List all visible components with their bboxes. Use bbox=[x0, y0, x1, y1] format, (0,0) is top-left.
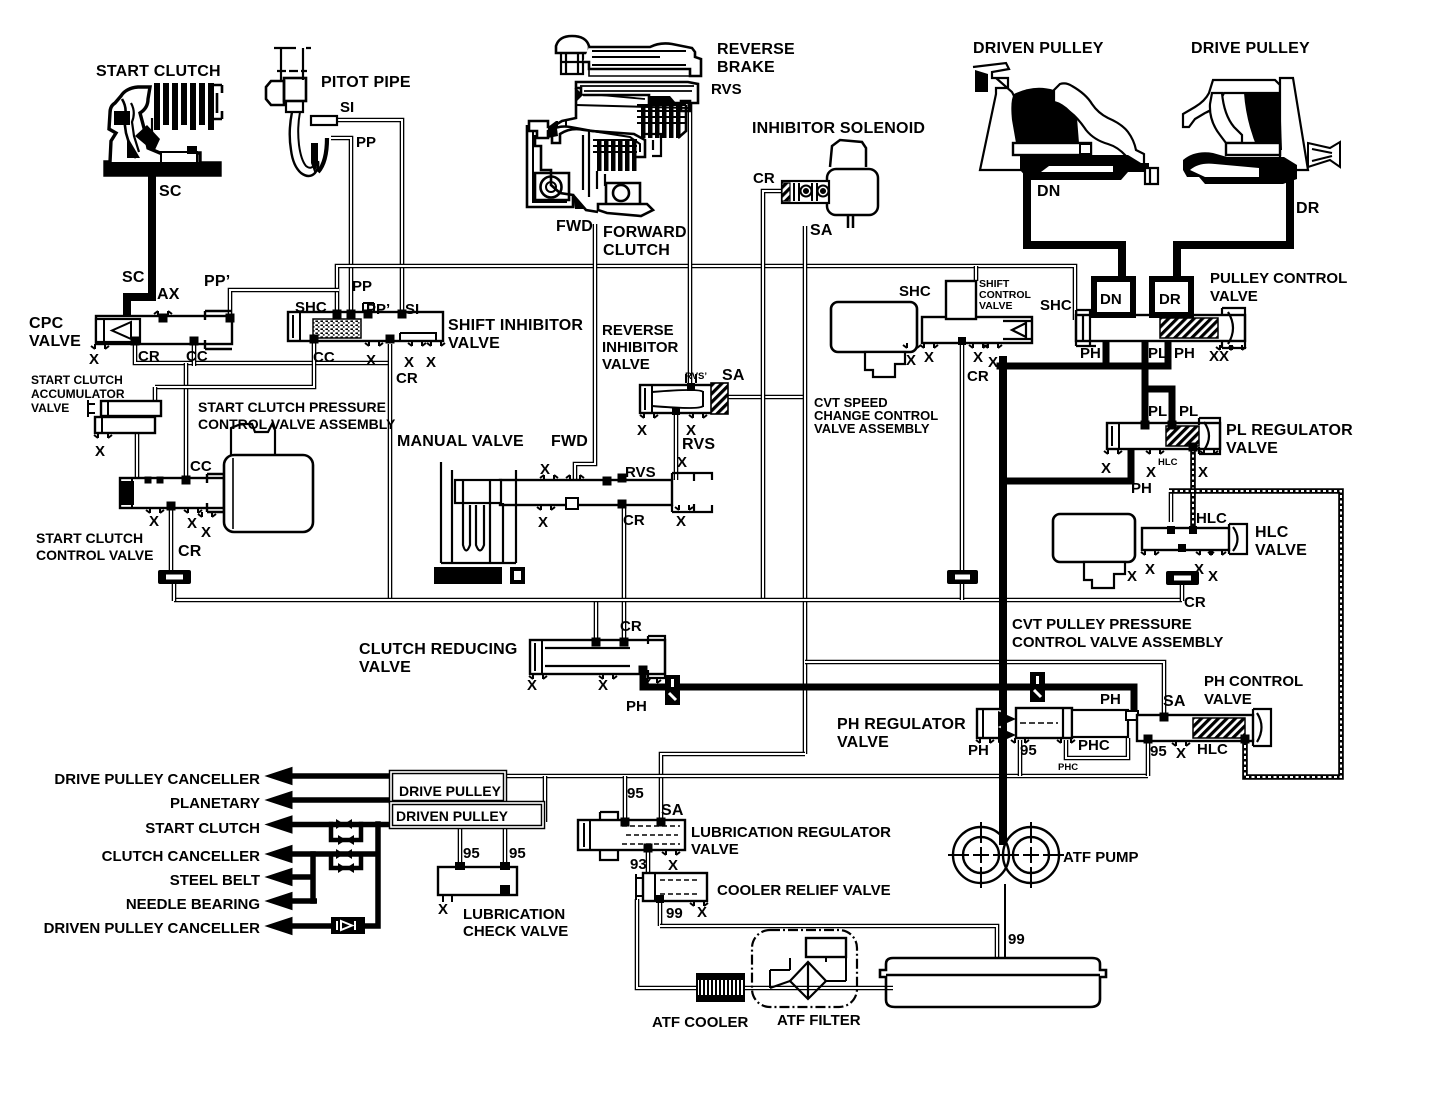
wire: cooler relief valve to ATF cooler bbox=[637, 899, 700, 988]
svg-text:AX: AX bbox=[157, 286, 180, 303]
svg-text:NEEDLE BEARING: NEEDLE BEARING bbox=[126, 896, 260, 913]
svg-text:DRIVE PULLEY: DRIVE PULLEY bbox=[399, 783, 502, 799]
svg-text:VALVE: VALVE bbox=[448, 335, 500, 352]
svg-text:99: 99 bbox=[666, 905, 683, 922]
svg-text:FWD: FWD bbox=[556, 218, 593, 235]
valve shift inhibitor (spool) bbox=[288, 312, 443, 341]
svg-text:X: X bbox=[438, 901, 448, 918]
wire SA: reverse inhibitor valve to SA riser bbox=[725, 395, 805, 400]
wire SA: to lubrication regulator valve bbox=[661, 754, 805, 821]
valve start clutch control (spool) bbox=[120, 478, 224, 508]
filter on CR line left bbox=[158, 570, 191, 584]
svg-text:VALVE: VALVE bbox=[1210, 288, 1258, 305]
svg-text:REVERSE: REVERSE bbox=[717, 41, 795, 58]
svg-text:SHC: SHC bbox=[1040, 297, 1072, 314]
svg-text:START CLUTCH PRESSURE: START CLUTCH PRESSURE bbox=[198, 399, 386, 415]
valve PH control (spool) bbox=[1137, 715, 1253, 741]
svg-text:SC: SC bbox=[122, 269, 145, 286]
wire: ATF cooler through filter to oil pan bbox=[742, 986, 893, 991]
svg-text:ATF COOLER: ATF COOLER bbox=[652, 1014, 749, 1031]
svg-text:95: 95 bbox=[1150, 743, 1167, 760]
svg-text:DRIVEN PULLEY: DRIVEN PULLEY bbox=[973, 40, 1104, 57]
svg-text:X: X bbox=[538, 514, 548, 531]
wire 95a to lubrication check valve bbox=[458, 826, 463, 867]
svg-text:DRIVEN PULLEY: DRIVEN PULLEY bbox=[396, 808, 509, 824]
svg-text:HLC: HLC bbox=[1197, 741, 1228, 758]
svg-text:CLUTCH REDUCING: CLUTCH REDUCING bbox=[359, 641, 518, 658]
wire CR: start clutch control valve to filter bbox=[169, 507, 174, 571]
wire CC: accumulator to shift inhibitor CC port bbox=[155, 340, 314, 387]
svg-text:SA: SA bbox=[810, 222, 833, 239]
svg-text:CONTROL VALVE ASSEMBLY: CONTROL VALVE ASSEMBLY bbox=[198, 416, 396, 432]
wire 95b to lubrication check valve bbox=[503, 826, 508, 867]
wire SHC bus: shift inhibitor to pulley control valve bbox=[337, 266, 1075, 320]
svg-text:DRIVEN PULLEY CANCELLER: DRIVEN PULLEY CANCELLER bbox=[44, 920, 261, 937]
check valve pair on start clutch line bbox=[331, 824, 361, 840]
svg-text:X: X bbox=[598, 677, 608, 694]
svg-text:START CLUTCH: START CLUTCH bbox=[36, 530, 143, 546]
arrow to steel belt bbox=[266, 869, 292, 886]
svg-text:CHECK VALVE: CHECK VALVE bbox=[463, 923, 568, 940]
svg-text:VALVE ASSEMBLY: VALVE ASSEMBLY bbox=[814, 421, 930, 436]
svg-text:95: 95 bbox=[509, 845, 526, 862]
svg-text:CR: CR bbox=[1184, 594, 1206, 611]
manual valve position labels bbox=[434, 567, 502, 584]
svg-text:X: X bbox=[677, 454, 687, 471]
svg-text:DR: DR bbox=[1296, 200, 1320, 217]
wire CC: down to start clutch control valve bbox=[184, 363, 189, 481]
svg-text:X: X bbox=[1146, 464, 1156, 481]
svg-text:CONTROL VALVE ASSEMBLY: CONTROL VALVE ASSEMBLY bbox=[1012, 634, 1223, 651]
svg-text:HLC: HLC bbox=[1196, 510, 1227, 527]
svg-text:PLANETARY: PLANETARY bbox=[170, 795, 260, 812]
svg-text:SI: SI bbox=[340, 99, 354, 116]
orifice on PH line 1 bbox=[665, 675, 680, 705]
svg-text:LUBRICATION: LUBRICATION bbox=[463, 906, 565, 923]
svg-text:X: X bbox=[1176, 745, 1186, 762]
wire CR bus right riser to HLC orifice bbox=[1180, 584, 1185, 601]
wire accumulator top stub bbox=[153, 387, 158, 403]
svg-text:DR: DR bbox=[1159, 291, 1181, 308]
svg-text:X: X bbox=[149, 513, 159, 530]
svg-text:X: X bbox=[1194, 561, 1204, 578]
port AX stub bbox=[154, 311, 172, 316]
svg-text:VALVE: VALVE bbox=[1255, 542, 1307, 559]
wire SA: inhibitor solenoid down bbox=[803, 226, 808, 754]
svg-text:VALVE: VALVE bbox=[31, 401, 69, 415]
svg-text:X: X bbox=[676, 513, 686, 530]
component pitot pipe drawing bbox=[266, 48, 337, 176]
svg-text:VALVE: VALVE bbox=[602, 356, 650, 373]
svg-text:PH: PH bbox=[626, 698, 647, 715]
box DN bbox=[1094, 279, 1133, 315]
svg-text:DRIVE PULLEY: DRIVE PULLEY bbox=[1191, 40, 1310, 57]
svg-text:CR: CR bbox=[753, 170, 775, 187]
svg-text:99: 99 bbox=[1008, 931, 1025, 948]
wire: clutch canceller to needle bearing link bbox=[310, 854, 316, 901]
solenoid CVT speed change control bbox=[831, 302, 917, 377]
svg-text:95: 95 bbox=[1020, 742, 1037, 759]
svg-text:PULLEY CONTROL: PULLEY CONTROL bbox=[1210, 270, 1347, 287]
svg-text:VALVE: VALVE bbox=[691, 841, 739, 858]
svg-text:SHC: SHC bbox=[899, 283, 931, 300]
wire accumulator to start clutch control valve bbox=[135, 431, 140, 481]
valve PL regulator (spool) bbox=[1107, 423, 1220, 449]
arrow to start clutch bbox=[266, 816, 292, 833]
wire PH: riser to PL regulator valve bbox=[1003, 450, 1131, 481]
svg-text:X: X bbox=[697, 904, 707, 921]
arrow to drive pulley canceller bbox=[266, 768, 292, 785]
svg-text:L S D N R: L S D N R bbox=[438, 572, 484, 583]
svg-text:RVS: RVS bbox=[711, 81, 742, 98]
wire CR bus left riser to filter bbox=[172, 583, 177, 601]
svg-text:PH REGULATOR: PH REGULATOR bbox=[837, 716, 966, 733]
wire SA: to PH control valve bbox=[805, 662, 1164, 713]
wire 99: to oil pan bbox=[660, 926, 997, 957]
orifice on PH line 2 bbox=[1030, 672, 1045, 702]
tag box DRIVE PULLEY bbox=[391, 772, 505, 802]
svg-text:X: X bbox=[527, 677, 537, 694]
svg-text:PP’: PP’ bbox=[204, 273, 230, 290]
arrow to planetary bbox=[266, 792, 292, 809]
svg-text:PP: PP bbox=[352, 278, 372, 295]
svg-text:BRAKE: BRAKE bbox=[717, 59, 775, 76]
svg-text:PH: PH bbox=[1174, 345, 1195, 362]
svg-text:SI: SI bbox=[405, 301, 419, 318]
svg-text:SHC: SHC bbox=[295, 299, 327, 316]
wire RVS: reverse inhibitor to manual valve bbox=[674, 411, 679, 480]
wire 99: pump suction to oil pan bbox=[1004, 884, 1006, 958]
svg-text:X: X bbox=[668, 857, 678, 874]
svg-text:SA: SA bbox=[661, 802, 684, 819]
svg-text:DN: DN bbox=[1037, 183, 1061, 200]
svg-text:REVERSE: REVERSE bbox=[602, 322, 674, 339]
component oil pan bbox=[880, 958, 1106, 1007]
component ATF pump bbox=[948, 822, 1064, 888]
svg-text:X: X bbox=[924, 349, 934, 366]
component ATF cooler bbox=[697, 974, 744, 1001]
svg-text:X: X bbox=[89, 351, 99, 368]
wire CR: inhibitor solenoid down to CR bus bbox=[763, 191, 782, 598]
svg-text:X: X bbox=[426, 354, 436, 371]
wire CR: shift control valve to orifice bbox=[960, 344, 965, 571]
svg-text:CR: CR bbox=[967, 368, 989, 385]
wire PP': CPC valve to SHC riser bbox=[230, 290, 339, 316]
svg-text:FWD: FWD bbox=[551, 433, 588, 450]
svg-text:ACCUMULATOR: ACCUMULATOR bbox=[31, 387, 125, 401]
svg-text:SC: SC bbox=[159, 183, 182, 200]
wire SC: start clutch to CPC valve bbox=[127, 168, 152, 316]
svg-text:X: X bbox=[973, 349, 983, 366]
svg-text:X: X bbox=[1208, 568, 1218, 585]
svg-text:CPC: CPC bbox=[29, 315, 64, 332]
wire 99 stub bbox=[658, 899, 663, 926]
wire HLC: PL regulator to HLC valve bbox=[1190, 449, 1196, 528]
tag box DRIVEN PULLEY bbox=[391, 803, 543, 827]
svg-text:PP’: PP’ bbox=[366, 301, 390, 318]
svg-text:START CLUTCH: START CLUTCH bbox=[145, 820, 260, 837]
svg-text:HLC: HLC bbox=[1158, 457, 1178, 468]
wire PP: pitot pipe to shift inhibitor valve bbox=[331, 138, 351, 313]
wire PH main riser to ATF pump bbox=[999, 360, 1007, 841]
wire CR: shift inhibitor valve down to CR bus bbox=[388, 344, 393, 600]
component start clutch drawing bbox=[105, 83, 222, 175]
svg-text:CC: CC bbox=[190, 458, 212, 475]
valve pulley control (spool) bbox=[1076, 315, 1245, 341]
component drive pulley drawing bbox=[1183, 78, 1340, 184]
wire CR bus bottom bbox=[174, 598, 1182, 603]
valve CPC (spool) bbox=[96, 316, 232, 344]
wire DN: driven pulley to pulley control valve bbox=[1027, 166, 1122, 281]
svg-text:SA: SA bbox=[722, 367, 745, 384]
wire: start clutch line down to canceller valve bbox=[363, 824, 378, 926]
svg-text:X: X bbox=[1101, 460, 1111, 477]
wire CC: CPC valve down stub bbox=[192, 342, 197, 366]
port PP' stub shift inhibitor bbox=[363, 303, 374, 312]
svg-text:INHIBITOR SOLENOID: INHIBITOR SOLENOID bbox=[752, 120, 925, 137]
svg-text:DN: DN bbox=[1100, 291, 1122, 308]
svg-text:INHIBITOR: INHIBITOR bbox=[602, 339, 679, 356]
svg-text:RVS: RVS bbox=[682, 436, 715, 453]
one-way valve driven pulley canceller bbox=[331, 917, 365, 934]
check valve pair on clutch canceller line bbox=[331, 854, 361, 868]
wire RVS: reverse brake to reverse inhibitor valve bbox=[688, 86, 693, 386]
filter on CR line (shift control) bbox=[947, 570, 978, 584]
wire FWD: forward clutch to manual valve bbox=[575, 224, 595, 481]
arrow to clutch canceller bbox=[266, 846, 292, 863]
valve manual (spool & detent) bbox=[500, 473, 712, 512]
arrow to needle bearing bbox=[266, 893, 292, 910]
svg-text:PL: PL bbox=[1148, 403, 1167, 420]
svg-text:X: X bbox=[95, 443, 105, 460]
component forward clutch & reverse brake drawing bbox=[527, 36, 701, 216]
solenoid start clutch pressure control bbox=[224, 424, 313, 532]
svg-text:X: X bbox=[187, 515, 197, 532]
svg-text:PH CONTROL: PH CONTROL bbox=[1204, 673, 1303, 690]
svg-text:93: 93 bbox=[630, 856, 647, 873]
svg-text:PH: PH bbox=[1131, 480, 1152, 497]
svg-text:RVS: RVS bbox=[625, 464, 656, 481]
svg-text:VALVE: VALVE bbox=[1226, 440, 1278, 457]
svg-text:CLUTCH CANCELLER: CLUTCH CANCELLER bbox=[102, 848, 260, 865]
svg-text:X: X bbox=[201, 524, 211, 541]
svg-text:CONTROL VALVE: CONTROL VALVE bbox=[36, 547, 153, 563]
svg-text:X: X bbox=[366, 352, 376, 369]
manual valve detent fork bbox=[441, 462, 516, 563]
svg-text:CC: CC bbox=[313, 349, 335, 366]
svg-text:DRIVE PULLEY CANCELLER: DRIVE PULLEY CANCELLER bbox=[54, 771, 260, 788]
svg-text:MANUAL VALVE: MANUAL VALVE bbox=[397, 433, 524, 450]
svg-text:95: 95 bbox=[463, 845, 480, 862]
svg-text:PH: PH bbox=[1080, 345, 1101, 362]
valve HLC (spool) bbox=[1142, 528, 1229, 550]
svg-text:PP: PP bbox=[356, 134, 376, 151]
svg-text:PHC: PHC bbox=[1058, 762, 1078, 773]
wire 95: PH regulator to bus bbox=[1018, 740, 1023, 776]
svg-text:VALVE: VALVE bbox=[837, 734, 889, 751]
svg-text:CR: CR bbox=[620, 618, 642, 635]
component ATF filter bbox=[752, 930, 857, 1007]
component inhibitor solenoid drawing bbox=[782, 140, 878, 228]
svg-text:PL REGULATOR: PL REGULATOR bbox=[1226, 422, 1353, 439]
wire 95: bus to lubrication regulator bbox=[623, 776, 628, 820]
wire 93: lubrication regulator to cooler relief valve bbox=[646, 849, 651, 874]
svg-text:VALVE: VALVE bbox=[979, 300, 1012, 312]
wire: CR bus to clutch reducing valve bbox=[594, 600, 599, 642]
wire PH port 1 stub bbox=[1103, 341, 1110, 366]
svg-text:ATF FILTER: ATF FILTER bbox=[777, 1012, 861, 1029]
svg-text:X: X bbox=[988, 354, 998, 371]
wire PHC loop under PH regulator bbox=[1066, 738, 1128, 758]
svg-text:PH: PH bbox=[1100, 691, 1121, 708]
valve clutch reducing (spool) bbox=[530, 640, 665, 674]
svg-text:LUBRICATION REGULATOR: LUBRICATION REGULATOR bbox=[691, 824, 891, 841]
valve reverse inhibitor (spool) bbox=[640, 385, 727, 413]
wire CR: orifice to CR bus bbox=[960, 583, 965, 600]
svg-text:COOLER RELIEF VALVE: COOLER RELIEF VALVE bbox=[717, 882, 891, 899]
svg-text:PHC: PHC bbox=[1078, 737, 1110, 754]
svg-text:CR: CR bbox=[178, 543, 202, 560]
svg-text:CC: CC bbox=[186, 348, 208, 365]
wire PH: clutch reducing valve to PH regulator bbox=[643, 672, 1134, 714]
wire CR: CPC valve across assembly box top bbox=[135, 342, 390, 363]
svg-text:X: X bbox=[1145, 561, 1155, 578]
wire 95: bus to driven pulley tag bbox=[543, 776, 548, 822]
svg-text:VALVE: VALVE bbox=[29, 333, 81, 350]
svg-text:CLUTCH: CLUTCH bbox=[603, 242, 670, 259]
svg-text:95: 95 bbox=[627, 785, 644, 802]
box DR bbox=[1152, 279, 1191, 315]
wire SI: pitot pipe to shift inhibitor valve bbox=[313, 120, 402, 313]
wire SHC stub to shift control valve box bbox=[974, 266, 979, 281]
wire HLC loop left stub bbox=[1169, 492, 1174, 522]
svg-text:X: X bbox=[637, 422, 647, 439]
svg-text:PITOT PIPE: PITOT PIPE bbox=[321, 74, 411, 91]
svg-text:START CLUTCH: START CLUTCH bbox=[31, 373, 123, 387]
arrow to driven pulley canceller bbox=[266, 918, 292, 935]
wire PL branch bbox=[1145, 389, 1172, 424]
svg-text:X: X bbox=[540, 461, 550, 478]
svg-text:CR: CR bbox=[623, 512, 645, 529]
svg-text:SA: SA bbox=[1163, 693, 1186, 710]
wire 95: bus to PH control valve bbox=[1146, 741, 1151, 776]
valve PH regulator (spool) bbox=[977, 708, 1138, 743]
valve cooler relief (spool) bbox=[636, 873, 707, 901]
valve start clutch accumulator (spool) bbox=[88, 400, 161, 433]
wire PL: pulley control to PL regulator bbox=[1142, 341, 1149, 424]
filter on CR line (HLC) bbox=[1166, 571, 1199, 585]
port chamber SHC bbox=[946, 281, 976, 319]
svg-text:RVS’: RVS’ bbox=[685, 371, 707, 382]
svg-text:XX: XX bbox=[1209, 348, 1229, 365]
svg-text:ATF PUMP: ATF PUMP bbox=[1063, 849, 1139, 866]
svg-text:CVT PULLEY PRESSURE: CVT PULLEY PRESSURE bbox=[1012, 616, 1192, 633]
wire HLC return loop bbox=[1169, 491, 1341, 777]
wire PH port 2 stub bbox=[1165, 341, 1172, 366]
valve lubrication regulator (spool) bbox=[578, 812, 685, 860]
wire 95 lubrication bus bbox=[503, 774, 1148, 779]
svg-text:X: X bbox=[1198, 464, 1208, 481]
svg-text:CR: CR bbox=[396, 370, 418, 387]
svg-text:X: X bbox=[404, 354, 414, 371]
valve lubrication check bbox=[438, 862, 517, 902]
svg-text:FORWARD: FORWARD bbox=[603, 224, 687, 241]
wire CR: manual valve to clutch reducing valve bbox=[622, 508, 627, 642]
svg-text:SHIFT INHIBITOR: SHIFT INHIBITOR bbox=[448, 317, 583, 334]
svg-text:X: X bbox=[642, 675, 652, 692]
wire DR: drive pulley to pulley control valve bbox=[1177, 176, 1290, 281]
svg-text:STEEL BELT: STEEL BELT bbox=[170, 872, 260, 889]
svg-text:PL: PL bbox=[1179, 403, 1198, 420]
svg-text:CR: CR bbox=[138, 348, 160, 365]
wire PH bus under pulley control valve bbox=[1000, 363, 1168, 370]
component driven pulley drawing bbox=[973, 63, 1158, 184]
svg-text:HLC: HLC bbox=[1255, 524, 1289, 541]
valve shift control (spool) bbox=[922, 317, 1032, 343]
svg-text:X: X bbox=[906, 352, 916, 369]
svg-text:PH: PH bbox=[968, 742, 989, 759]
svg-text:PL: PL bbox=[1148, 345, 1167, 362]
solenoid HLC bbox=[1053, 514, 1135, 588]
svg-text:VALVE: VALVE bbox=[359, 659, 411, 676]
svg-text:X: X bbox=[1127, 568, 1137, 585]
svg-text:START CLUTCH: START CLUTCH bbox=[96, 63, 221, 80]
svg-text:VALVE: VALVE bbox=[1204, 691, 1252, 708]
